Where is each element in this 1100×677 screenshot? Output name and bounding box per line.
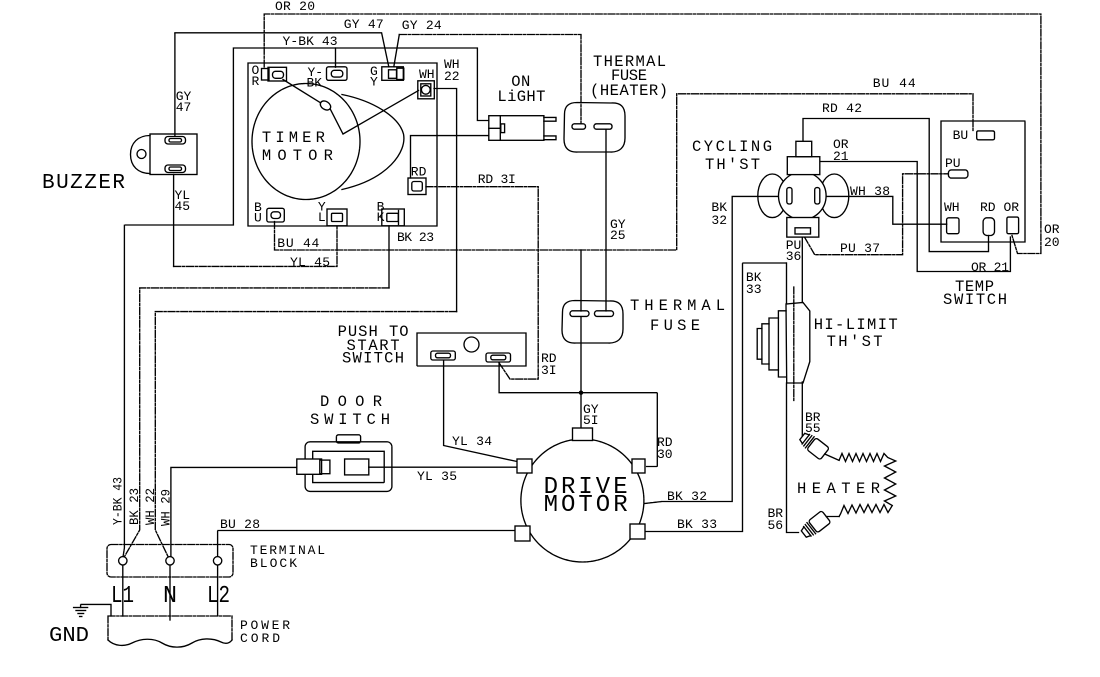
svg-text:BU 44: BU 44 <box>277 236 319 251</box>
svg-text:BK 33: BK 33 <box>677 517 717 532</box>
svg-text:L: L <box>318 210 326 225</box>
cycling thermostat <box>758 141 849 237</box>
temp switch box <box>941 121 1025 242</box>
wire hi-limit left lead <box>786 263 788 304</box>
svg-text:BLOCK: BLOCK <box>250 556 297 571</box>
door switch <box>297 435 392 492</box>
svg-text:BK 23: BK 23 <box>397 230 434 245</box>
wire PU 37 (cycling thst to temp switch PU) <box>805 174 949 255</box>
timer terminal G Y <box>382 67 404 81</box>
svg-text:BU 28: BU 28 <box>220 517 260 532</box>
wire WH 29 (door switch to N) <box>171 467 297 556</box>
svg-text:BK: BK <box>307 76 323 91</box>
buzzer <box>131 134 198 175</box>
thermal fuse body <box>562 301 623 344</box>
svg-text:3I: 3I <box>541 363 557 378</box>
terminal block <box>107 545 233 578</box>
wire WH 22 (timer WH to N) <box>434 89 457 312</box>
push to start switch box <box>417 333 526 366</box>
temp switch terminal RD <box>983 218 994 236</box>
wire PU 36 (cycling thst to hi-limit) <box>801 237 803 302</box>
svg-text:WH: WH <box>944 200 960 215</box>
wire GY 51 (thermal fuse to drive motor) <box>580 317 582 428</box>
svg-text:WH: WH <box>419 67 435 82</box>
timer terminal Y-BK <box>327 67 348 81</box>
svg-text:Y: Y <box>370 75 378 90</box>
wire YL 45 (buzzer to timer YL) <box>173 175 175 267</box>
svg-text:Y-BK 43: Y-BK 43 <box>283 34 338 49</box>
drive motor <box>515 428 645 562</box>
svg-text:47: 47 <box>176 100 192 115</box>
junction GY51 / RD30 <box>579 391 583 395</box>
svg-text:PU 37: PU 37 <box>840 241 880 256</box>
svg-text:OR: OR <box>1004 200 1020 215</box>
svg-text:20: 20 <box>1044 235 1060 250</box>
temp switch terminal PU <box>948 170 968 178</box>
timer motor rotor <box>252 84 360 200</box>
timer terminal BU <box>267 208 285 222</box>
timer terminal RD <box>408 178 426 195</box>
wire GND to power cord <box>81 604 111 616</box>
svg-text:N: N <box>163 583 177 610</box>
svg-text:L1: L1 <box>111 583 134 610</box>
wire L2 to power cord <box>217 565 219 616</box>
wire N to power cord <box>169 565 171 620</box>
svg-text:(HEATER): (HEATER) <box>590 82 668 100</box>
svg-text:32: 32 <box>711 213 727 228</box>
wire YL 35 (door switch to drive motor) <box>369 466 517 468</box>
svg-text:22: 22 <box>444 69 460 84</box>
wire Y-BK 43 (L1 to timer and on-light) <box>123 48 489 557</box>
svg-text:33: 33 <box>746 282 762 297</box>
wire WH 38 (cycling thst to temp switch WH) <box>826 196 946 224</box>
svg-text:BUZZER: BUZZER <box>42 172 125 195</box>
timer cam lobe <box>342 95 404 190</box>
wire BK 23 (timer BK to L1) <box>388 226 390 288</box>
wire OR 21 (cycling thst to temp switch OR) <box>812 162 1010 272</box>
wire YL 34 (push-to-start to drive motor) <box>444 361 517 462</box>
timer box <box>248 63 437 226</box>
wire BU 44 (timer BU to temp switch BU) <box>275 94 974 250</box>
wire RD 31 branch to on-light <box>411 136 489 178</box>
svg-text:25: 25 <box>610 228 626 243</box>
heater connector BR 55 <box>798 431 842 470</box>
temp switch terminal OR <box>1007 217 1019 234</box>
wire Y-BK 43 branch to timer terminal <box>335 48 337 67</box>
svg-text:5I: 5I <box>583 413 599 428</box>
svg-text:WH 29: WH 29 <box>159 489 174 526</box>
svg-text:30: 30 <box>657 447 673 462</box>
svg-text:K: K <box>377 210 385 225</box>
svg-text:45: 45 <box>175 199 191 214</box>
timer terminal YL <box>327 209 347 226</box>
svg-text:Y-BK 43: Y-BK 43 <box>111 477 126 525</box>
svg-text:YL 35: YL 35 <box>417 469 457 484</box>
svg-text:56: 56 <box>768 518 784 533</box>
wire L1 to power cord <box>122 565 124 616</box>
svg-text:BK 23: BK 23 <box>127 488 142 525</box>
wire BK 33 (drive motor to hi-limit) <box>645 263 786 532</box>
wire hi-limit to heater BR55 <box>801 382 803 436</box>
svg-text:OR 21: OR 21 <box>971 260 1009 275</box>
svg-text:OR 20: OR 20 <box>275 0 315 14</box>
timer cam follower arm <box>283 80 320 103</box>
svg-text:R: R <box>252 74 260 89</box>
svg-text:WH 38: WH 38 <box>850 184 890 199</box>
svg-text:GY 24: GY 24 <box>402 18 442 33</box>
svg-text:55: 55 <box>805 421 821 436</box>
svg-text:YL 34: YL 34 <box>452 434 492 449</box>
svg-text:RD 3I: RD 3I <box>478 172 516 187</box>
wire RD 42 (cycling thst to temp switch RD) <box>803 119 989 252</box>
temp switch terminal BU <box>977 131 995 140</box>
svg-text:GND: GND <box>49 625 89 648</box>
svg-text:HI-LIMIT: HI-LIMIT <box>814 316 898 334</box>
svg-text:BU: BU <box>953 128 969 143</box>
svg-text:WH 22: WH 22 <box>143 488 158 525</box>
svg-text:L2: L2 <box>207 583 230 610</box>
wire GY 47 (buzzer to timer G-Y) <box>174 33 176 136</box>
svg-text:PU: PU <box>945 156 961 171</box>
wire BK 32 (cycling thst to drive motor) <box>645 196 781 503</box>
temp switch terminal WH <box>947 218 959 234</box>
timer terminal WH <box>418 81 435 99</box>
timer terminal O R <box>262 67 287 81</box>
timer terminal BK <box>382 209 405 226</box>
svg-text:LiGHT: LiGHT <box>497 88 545 106</box>
svg-text:YL 45: YL 45 <box>290 255 330 270</box>
wire OR 20 top run <box>264 14 1041 254</box>
svg-text:TH'ST: TH'ST <box>705 156 760 174</box>
ground symbol <box>74 608 88 617</box>
wire BU 28 (L2 to drive motor) <box>218 531 515 557</box>
svg-text:RD: RD <box>411 165 427 180</box>
svg-text:TH'ST: TH'ST <box>827 333 883 351</box>
svg-text:RD 42: RD 42 <box>822 101 862 116</box>
thermal fuse (heater) body <box>564 103 625 153</box>
heater connector BR 56 <box>799 504 839 540</box>
svg-text:BK 32: BK 32 <box>667 489 707 504</box>
wire RD 31 (timer RD to push-to-start switch) <box>426 187 538 379</box>
svg-text:MOTOR: MOTOR <box>544 492 628 519</box>
svg-text:U: U <box>254 211 262 226</box>
svg-text:BU 44: BU 44 <box>873 76 916 91</box>
svg-text:36: 36 <box>786 249 802 264</box>
on light <box>489 116 556 141</box>
svg-text:SWITCH: SWITCH <box>342 350 404 368</box>
wire hi-limit to heater BR56 <box>787 383 800 533</box>
svg-text:RD: RD <box>980 200 996 215</box>
svg-text:CYCLING: CYCLING <box>692 138 772 156</box>
wire BU 44 branch to thermal fuse <box>580 250 582 311</box>
svg-text:GY 47: GY 47 <box>344 17 384 32</box>
heater element zigzag <box>839 454 896 517</box>
svg-text:21: 21 <box>833 149 849 164</box>
wire GY 25 (thermal fuse heater to thermal fuse) <box>605 130 607 312</box>
wire GY 24 (timer G-Y to thermal fuse heater) <box>394 35 400 67</box>
wire RD 30 (push-to-start to drive motor) <box>499 363 657 467</box>
power cord <box>108 616 232 640</box>
hi-limit thermostat <box>757 287 810 402</box>
